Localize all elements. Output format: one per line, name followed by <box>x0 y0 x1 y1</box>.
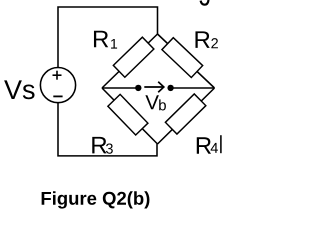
caption Figure Q2(b) <box>42 191 150 208</box>
wire: left vertex to node a <box>102 87 138 89</box>
label R2 <box>195 31 217 48</box>
text cursor after R4 <box>220 135 222 153</box>
wire: bridge edge top-right (T to R) <box>158 34 215 88</box>
label Vs <box>4 80 34 99</box>
voltage source Vs <box>40 68 75 103</box>
resistor R2 <box>162 38 203 78</box>
label R3 <box>92 137 113 154</box>
node b (right bridge output) <box>167 85 173 91</box>
resistor R1 <box>113 37 154 77</box>
wire: bottom (Vs- to bridge bottom vertex) <box>58 103 157 156</box>
wire: bridge edge top-left (T to L) <box>102 34 158 88</box>
wire: bridge edge bottom-left (L to B) <box>102 88 158 144</box>
node a (left bridge output) <box>135 85 141 91</box>
wire: node b to right vertex <box>171 87 215 89</box>
resistor R3 <box>108 94 148 135</box>
wire: bridge edge bottom-right (R to B) <box>158 88 215 144</box>
resistor R4 <box>165 94 205 134</box>
wire: top (Vs+ to bridge top vertex) <box>58 7 158 68</box>
arrow Vb (between nodes) <box>144 82 164 92</box>
label Vb <box>145 95 166 110</box>
label R4 <box>197 137 218 154</box>
label R1 <box>94 31 117 49</box>
cut-off glyph fragment at top <box>201 0 209 5</box>
